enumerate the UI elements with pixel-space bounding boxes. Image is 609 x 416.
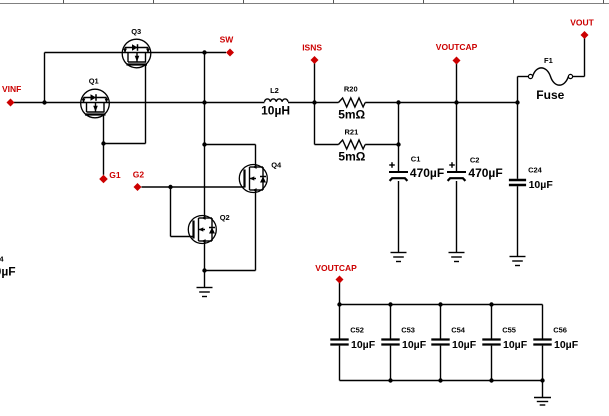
svg-text:C24: C24 — [528, 165, 543, 174]
svg-text:10µF: 10µF — [0, 265, 16, 279]
svg-text:470µF: 470µF — [468, 166, 502, 180]
svg-text:SW: SW — [220, 35, 235, 45]
svg-text:C52: C52 — [350, 325, 364, 334]
svg-text:F1: F1 — [544, 56, 553, 65]
svg-text:ISNS: ISNS — [302, 43, 322, 53]
svg-text:10µF: 10µF — [503, 339, 528, 351]
svg-text:VINF: VINF — [2, 84, 21, 94]
svg-text:R21: R21 — [345, 127, 359, 136]
svg-text:10µF: 10µF — [529, 179, 554, 191]
svg-text:4: 4 — [0, 255, 4, 264]
svg-text:C1: C1 — [411, 154, 421, 163]
svg-text:10µF: 10µF — [351, 339, 376, 351]
svg-text:Q3: Q3 — [131, 27, 141, 36]
svg-text:G1: G1 — [109, 170, 121, 180]
svg-text:VOUTCAP: VOUTCAP — [315, 263, 357, 273]
svg-text:C2: C2 — [470, 156, 480, 165]
svg-text:5mΩ: 5mΩ — [338, 149, 365, 163]
svg-text:C55: C55 — [502, 325, 516, 334]
svg-text:C54: C54 — [451, 325, 466, 334]
svg-text:10µF: 10µF — [554, 339, 579, 351]
svg-text:10µF: 10µF — [402, 339, 427, 351]
svg-text:L2: L2 — [270, 86, 279, 95]
svg-text:Q1: Q1 — [89, 77, 99, 86]
svg-text:VOUT: VOUT — [570, 17, 594, 27]
svg-text:VOUTCAP: VOUTCAP — [436, 42, 478, 52]
svg-text:5mΩ: 5mΩ — [338, 108, 365, 122]
svg-text:R20: R20 — [344, 84, 358, 93]
svg-text:Fuse: Fuse — [536, 88, 564, 102]
svg-text:Q2: Q2 — [220, 213, 230, 222]
svg-text:Q4: Q4 — [271, 160, 282, 169]
svg-text:C53: C53 — [401, 325, 415, 334]
svg-text:10µH: 10µH — [261, 104, 290, 118]
svg-text:C56: C56 — [553, 325, 567, 334]
svg-text:10µF: 10µF — [452, 339, 477, 351]
svg-text:G2: G2 — [133, 169, 145, 179]
svg-text:470µF: 470µF — [410, 166, 444, 180]
